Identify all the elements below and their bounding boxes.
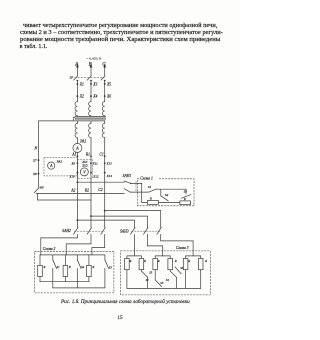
terminal X4 (90, 95, 97, 99)
svg-text:SN: SN (40, 185, 45, 189)
switch S3 (box 3) (155, 280, 164, 287)
terminal X14 (104, 172, 113, 179)
breaker SF pole C (101, 76, 106, 82)
svg-text:~ 0,4(0) В: ~ 0,4(0) В (87, 56, 102, 61)
node B1 (86, 153, 92, 158)
transformer T secondary winding A (75, 121, 77, 138)
switch S3 (box 2) (105, 255, 112, 288)
resistor R2 (box 2) (63, 255, 71, 282)
terminal X8 (32, 172, 39, 176)
wire phase A down (76, 152, 78, 227)
svg-text:Х14: Х14 (106, 174, 113, 178)
svg-text:Х8: Х8 (32, 172, 37, 176)
terminal X1 (76, 82, 83, 86)
terminal X2 (76, 95, 83, 99)
svg-text:Х13: Х13 (106, 162, 113, 166)
switch S4 (box 3) (166, 270, 177, 289)
voltmeter PV (plug-in, dashed) (77, 160, 92, 178)
ammeter PA1 (73, 138, 86, 153)
svg-text:А: А (49, 163, 53, 168)
switch SN (34, 185, 44, 192)
wire phase C down (104, 138, 106, 228)
svg-text:С2: С2 (98, 188, 102, 192)
svg-text:R: R (174, 259, 177, 263)
resistor R2 (box 1) (180, 197, 191, 204)
svg-text:S1: S1 (57, 265, 61, 269)
switch S1 (box 1) (148, 185, 186, 192)
wire phase A to SAN1 (76, 181, 124, 183)
switch S5 (box 3) (175, 266, 184, 274)
switch SAN3 pole 3 (157, 227, 162, 234)
resistor R1 (box 1) (147, 197, 158, 205)
svg-text:R: R (91, 265, 94, 269)
svg-text:РА2: РА2 (56, 159, 63, 163)
svg-text:V: V (83, 170, 86, 175)
svg-text:SAН2: SAН2 (62, 229, 71, 233)
switch SAN2 pole C (101, 227, 106, 234)
svg-text:S4: S4 (166, 278, 170, 282)
wire SAN2 C to box 2 (92, 234, 105, 255)
resistor R1 (box 3) (125, 256, 132, 289)
svg-text:В2: В2 (85, 189, 89, 193)
resistor R2 (box 3) (139, 256, 146, 270)
svg-text:SF: SF (70, 75, 75, 79)
breaker SF pole A (74, 76, 79, 82)
terminal X5 (104, 82, 111, 86)
switch S2 (box 2) (77, 255, 84, 288)
breaker SF pole B (87, 76, 92, 82)
svg-text:Х7: Х7 (32, 159, 37, 163)
wire phase C to transformer (104, 81, 106, 102)
svg-text:R: R (43, 265, 46, 269)
svg-text:R: R (183, 197, 186, 201)
svg-text:R: R (68, 265, 71, 269)
switch S2 (box 3) (141, 270, 152, 289)
wire SAN3 pole3 to box 3 (161, 234, 201, 256)
lower rail 2 (box 2) (53, 287, 105, 289)
wire SAN2 A to box 2 (41, 234, 78, 255)
neutral bus 2 (37, 193, 91, 200)
switch S1 (box 2) (53, 255, 60, 288)
svg-text:S3: S3 (109, 266, 113, 270)
top rail (box 2) (40, 254, 105, 256)
svg-text:ХU2: ХU2 (81, 164, 88, 168)
wire SAN2 B to box 2 (66, 234, 91, 255)
svg-text:Х3: Х3 (92, 82, 97, 86)
switch SAN1 linkage (135, 182, 137, 192)
svg-text:S1: S1 (148, 185, 152, 189)
svg-text:S3: S3 (184, 189, 188, 193)
wire into box 1 (141, 183, 143, 202)
svg-text:R: R (157, 259, 160, 263)
ammeter PA2 (plug-in, dashed) (44, 158, 77, 176)
switch SAN3 linkage (131, 230, 160, 232)
figure caption (61, 299, 193, 305)
svg-text:Х4: Х4 (92, 95, 97, 99)
wire SAN3 pole1 to box 3 (127, 234, 141, 256)
svg-text:А2: А2 (70, 189, 75, 193)
svg-text:R: R (187, 259, 190, 263)
transformer T secondary winding B (89, 121, 91, 138)
transformer T primary winding A (75, 102, 77, 116)
svg-text:S5: S5 (180, 266, 184, 270)
svg-text:SAН3: SAН3 (120, 229, 129, 233)
svg-text:Схема 2: Схема 2 (43, 247, 56, 251)
wire phase C to SAN3 (104, 210, 161, 228)
phase C supply arrow (104, 63, 106, 76)
svg-text:Схема 3: Схема 3 (176, 246, 189, 250)
terminal X11 (90, 162, 98, 166)
resistor R5 (box 3) (183, 256, 190, 289)
transformer T primary winding B (89, 102, 91, 116)
transformer T secondary winding C (102, 121, 104, 138)
transformer T core (75, 117, 105, 119)
node C1 (99, 153, 105, 158)
terminal X6 (104, 95, 111, 99)
svg-text:РА1: РА1 (79, 139, 86, 143)
terminal X7 (32, 159, 39, 163)
svg-text:А: А (75, 146, 79, 151)
rail (box 1) (142, 201, 191, 203)
switch SAN3 pole 1 (131, 227, 136, 234)
wire phase A to transformer (76, 81, 78, 102)
terminal X13 (104, 162, 112, 166)
wire secondary star bus (39, 120, 106, 122)
switch SAN1 pole 2 (124, 189, 148, 192)
wire phase A to SAN3 (76, 219, 134, 227)
lower rail 1 (box 2) (40, 281, 89, 283)
resistor R3 (box 2) (87, 255, 95, 282)
svg-text:S2: S2 (81, 265, 85, 269)
switch SAN1 pole 1 (124, 181, 142, 184)
svg-text:N: N (34, 146, 38, 150)
neutral wire N (34, 121, 39, 187)
svg-text:С1: С1 (99, 153, 103, 157)
bottom rail (box 3) (127, 287, 201, 289)
switch S3 (box 1) (181, 189, 191, 198)
wire phase B to transformer (90, 81, 92, 102)
svg-text:SAН1: SAН1 (123, 174, 132, 178)
terminal X10 (68, 172, 78, 179)
terminal X3 (90, 82, 97, 86)
svg-text:R: R (149, 197, 152, 201)
svg-text:А1: А1 (71, 153, 76, 157)
wire SAN3 pole2 to box 3 (147, 234, 170, 256)
svg-text:R: R (204, 259, 207, 263)
transformer T primary winding C (102, 102, 104, 116)
svg-text:R: R (143, 259, 146, 263)
page number (110, 315, 130, 321)
phase B supply arrow (90, 63, 92, 76)
svg-text:Х2: Х2 (79, 95, 84, 99)
load box Схема 3 (121, 246, 211, 295)
svg-text:S3: S3 (149, 270, 153, 274)
wire phase B to SAN3 (90, 215, 147, 227)
svg-text:Схема 1: Схема 1 (140, 176, 153, 180)
resistor R6 (box 3) (198, 256, 207, 289)
switch SAN2 pole B (87, 227, 92, 234)
svg-text:S2: S2 (165, 193, 169, 197)
wire phase B down (90, 138, 92, 228)
terminal X9 (70, 162, 78, 166)
switch SAN3 pole 2 (144, 227, 149, 234)
svg-text:В1: В1 (86, 153, 90, 157)
load box Схема 2 (35, 247, 114, 293)
node A1 (71, 153, 78, 158)
neutral bus (36, 192, 124, 194)
phase A supply arrow (76, 63, 78, 76)
resistor R1 (box 2) (38, 255, 46, 282)
switch SAN2 linkage (74, 230, 104, 232)
switch SAN2 pole A (74, 227, 79, 234)
svg-text:Х1: Х1 (79, 82, 84, 86)
svg-text:Х12: Х12 (92, 175, 99, 179)
paragraph text (23, 23, 217, 30)
svg-text:Х5: Х5 (106, 82, 111, 86)
switch S2 (box 1) (161, 189, 169, 201)
svg-text:S3: S3 (160, 281, 164, 285)
svg-text:Х6: Х6 (106, 95, 111, 99)
resistor R3 (box 3) (153, 256, 160, 280)
svg-text:Х10: Х10 (68, 175, 75, 179)
load box Схема 1 (137, 176, 194, 206)
resistor R4 (box 3) (168, 256, 177, 270)
svg-text:Х9: Х9 (70, 162, 75, 166)
svg-text:R: R (129, 259, 132, 263)
breaker SF linkage (75, 77, 104, 79)
terminal X12 (90, 172, 99, 179)
